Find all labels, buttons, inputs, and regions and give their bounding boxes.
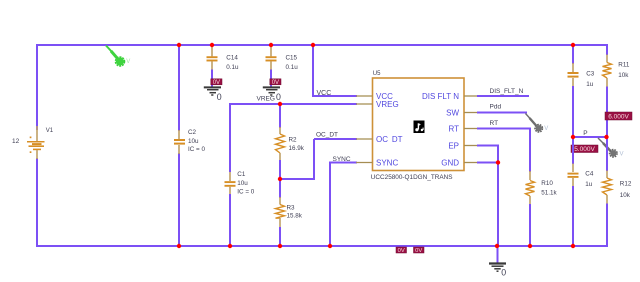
net label VREG bbox=[257, 96, 275, 103]
net label RT bbox=[490, 120, 499, 127]
svg-text:0V: 0V bbox=[272, 80, 279, 86]
ground (main, below bottom rail) bbox=[489, 246, 506, 278]
label UCC25800-Q1DGN_TRANS bbox=[371, 174, 453, 181]
net label P bbox=[583, 130, 587, 137]
voltage label 0V (bottom rail left) bbox=[396, 247, 407, 254]
voltage probe (Pdd) bbox=[526, 114, 549, 133]
pin stub OC DT bbox=[356, 138, 373, 140]
junction dot EP GND bbox=[496, 160, 500, 164]
svg-text:R11: R11 bbox=[618, 61, 630, 68]
svg-text:V1: V1 bbox=[46, 128, 54, 134]
junction dot bottom rail SYNC bbox=[328, 244, 332, 248]
svg-text:C14: C14 bbox=[226, 54, 238, 61]
svg-text:VREG: VREG bbox=[376, 100, 399, 109]
svg-text:C15: C15 bbox=[286, 54, 298, 61]
svg-text:P: P bbox=[583, 130, 587, 137]
wire R2 bottom bbox=[279, 160, 281, 180]
svg-text:0.1u: 0.1u bbox=[286, 64, 299, 71]
value label 10k bbox=[618, 72, 629, 79]
svg-text:10k: 10k bbox=[620, 192, 631, 199]
voltage label 0V (bottom rail right) bbox=[414, 247, 425, 254]
label C4 bbox=[585, 171, 594, 178]
svg-text:VREG: VREG bbox=[257, 96, 275, 103]
wire Pdd (SW) net bbox=[477, 112, 527, 114]
wire RT net bbox=[477, 129, 531, 173]
svg-text:0V: 0V bbox=[415, 248, 422, 254]
svg-text:51.1k: 51.1k bbox=[541, 189, 557, 196]
capacitor C1 bbox=[225, 172, 236, 246]
wire OC_DT net bbox=[279, 139, 357, 180]
op-amp U5 (IC UCC25800) body bbox=[373, 78, 465, 171]
net label Pdd bbox=[490, 104, 502, 111]
svg-text:RT: RT bbox=[448, 124, 459, 133]
label C1 bbox=[237, 171, 246, 178]
label C3 bbox=[586, 70, 595, 77]
label C15 bbox=[286, 54, 298, 61]
value label 12 bbox=[12, 138, 20, 145]
junction dot bottom rail GND bbox=[495, 244, 499, 248]
value label 0.1u bbox=[226, 64, 239, 71]
wire R11 branch bbox=[606, 44, 608, 55]
pin stub SYNC bbox=[356, 162, 373, 164]
wire GND net bbox=[477, 163, 498, 247]
current probe (green, top rail) bbox=[106, 46, 130, 67]
value label 1u bbox=[586, 81, 594, 88]
svg-text:0V: 0V bbox=[213, 80, 220, 86]
svg-text:OC DT: OC DT bbox=[376, 135, 403, 144]
svg-text:5.000V: 5.000V bbox=[574, 146, 595, 153]
value label 1u bbox=[585, 181, 593, 188]
junction dot bottom rail C4 bbox=[571, 244, 575, 248]
wire bottom rail bbox=[36, 245, 608, 247]
svg-text:1u: 1u bbox=[585, 181, 593, 188]
svg-text:DIS_FLT_N: DIS_FLT_N bbox=[490, 88, 524, 95]
wire node P bbox=[573, 136, 607, 138]
svg-text:16.9k: 16.9k bbox=[289, 145, 305, 152]
junction dot top rail C14 bbox=[210, 43, 214, 47]
junction dot bottom rail C1 bbox=[228, 244, 232, 248]
value label 0.1u bbox=[286, 64, 299, 71]
svg-text:IC = 0: IC = 0 bbox=[237, 188, 254, 195]
svg-text:DIS FLT N: DIS FLT N bbox=[422, 92, 459, 101]
junction dot top rail C3 bbox=[571, 43, 575, 47]
pin stub SW bbox=[464, 112, 478, 114]
pin stub VCC bbox=[356, 95, 373, 97]
svg-text:GND: GND bbox=[441, 158, 459, 167]
net label OC_DT bbox=[316, 132, 338, 139]
value label 10u bbox=[188, 138, 199, 145]
svg-text:12: 12 bbox=[12, 138, 20, 145]
svg-text:C2: C2 bbox=[188, 129, 197, 136]
voltage probe (node P) bbox=[598, 138, 624, 158]
svg-text:IC = 0: IC = 0 bbox=[188, 146, 205, 153]
label R11 bbox=[618, 61, 630, 68]
voltage label 5.000V bbox=[571, 145, 598, 153]
junction dot top rail C2 bbox=[177, 43, 181, 47]
value label IC = 0 bbox=[237, 188, 254, 195]
junction dot bottom rail R10 bbox=[528, 244, 532, 248]
label R2 bbox=[289, 137, 298, 144]
label R3 bbox=[287, 204, 296, 211]
resistor R11 bbox=[603, 55, 612, 139]
svg-text:SYNC: SYNC bbox=[333, 156, 351, 163]
svg-text:0.1u: 0.1u bbox=[226, 64, 239, 71]
svg-text:OC_DT: OC_DT bbox=[316, 132, 338, 139]
svg-text:15.8k: 15.8k bbox=[287, 213, 303, 220]
junction dot R2 R3 OC_DT bbox=[278, 177, 282, 181]
logo mark (black box with note) bbox=[414, 121, 425, 134]
label R10 bbox=[541, 180, 553, 187]
capacitor C15 bbox=[266, 46, 277, 87]
wire VCC branch bbox=[312, 45, 357, 96]
pin label RT bbox=[448, 124, 459, 133]
svg-text:6.000V: 6.000V bbox=[608, 113, 629, 120]
junction dot node P right bbox=[604, 135, 608, 139]
svg-text:C1: C1 bbox=[237, 171, 246, 178]
value label 51.1k bbox=[541, 189, 557, 196]
voltage label 6.000V bbox=[605, 112, 632, 120]
svg-text:UCC25800-Q1DGN_TRANS: UCC25800-Q1DGN_TRANS bbox=[371, 174, 453, 181]
wire left vertical (V1 branch) bbox=[36, 44, 38, 247]
capacitor C4 bbox=[568, 137, 579, 246]
label C14 bbox=[226, 54, 238, 61]
svg-text:C4: C4 bbox=[585, 171, 594, 178]
pin label DIS FLT N bbox=[422, 92, 459, 101]
pin label OC DT bbox=[376, 135, 403, 144]
voltage label 0V (C15 ground) bbox=[270, 79, 281, 86]
svg-text:0V: 0V bbox=[398, 248, 405, 254]
resistor R2 bbox=[276, 127, 285, 160]
voltage label 0V (C14 ground) bbox=[211, 79, 222, 86]
svg-text:10u: 10u bbox=[237, 180, 248, 187]
svg-text:R3: R3 bbox=[287, 204, 296, 211]
label C2 bbox=[188, 129, 197, 136]
wire EP net bbox=[477, 146, 499, 163]
capacitor C2 bbox=[174, 130, 185, 154]
capacitor C3 bbox=[568, 63, 579, 138]
svg-text:0: 0 bbox=[501, 268, 506, 278]
pin stub RT bbox=[464, 128, 478, 130]
svg-text:0: 0 bbox=[276, 92, 281, 102]
resistor R10 bbox=[526, 171, 535, 246]
svg-text:V: V bbox=[126, 59, 130, 65]
svg-text:0: 0 bbox=[217, 92, 222, 102]
value label 15.8k bbox=[287, 213, 303, 220]
wire top rail bbox=[36, 44, 608, 46]
svg-text:V: V bbox=[620, 152, 624, 158]
value label IC = 0 bbox=[188, 146, 205, 153]
resistor R12 bbox=[603, 137, 612, 247]
svg-text:V: V bbox=[544, 126, 548, 132]
pin label GND bbox=[441, 158, 459, 167]
value label 16.9k bbox=[289, 145, 305, 152]
wire C3 branch bbox=[572, 45, 574, 64]
pin stub EP bbox=[464, 145, 478, 147]
pin stub DIS FLT N bbox=[464, 95, 478, 97]
svg-text:EP: EP bbox=[448, 141, 459, 150]
svg-text:10u: 10u bbox=[188, 138, 199, 145]
junction dot bottom rail C2 bbox=[177, 244, 181, 248]
ground (C14) bbox=[204, 87, 222, 102]
pin stub GND bbox=[464, 162, 478, 164]
junction dot top rail C15 bbox=[269, 43, 273, 47]
svg-text:U5: U5 bbox=[373, 71, 381, 77]
svg-text:C3: C3 bbox=[586, 70, 595, 77]
wire DIS_FLT_N net bbox=[477, 95, 529, 97]
wire R2 top bbox=[279, 104, 281, 128]
svg-text:RT: RT bbox=[490, 120, 499, 127]
net label DIS_FLT_N bbox=[490, 88, 524, 95]
resistor R3 bbox=[276, 179, 285, 246]
junction dot top rail VCC bbox=[311, 43, 315, 47]
svg-text:R2: R2 bbox=[289, 137, 298, 144]
ground (C15) bbox=[263, 87, 281, 102]
battery V1 bbox=[27, 126, 45, 159]
value label 10k bbox=[620, 192, 631, 199]
junction dot node P left bbox=[571, 135, 575, 139]
svg-text:10k: 10k bbox=[618, 72, 629, 79]
label U5 bbox=[373, 71, 381, 77]
svg-text:R10: R10 bbox=[541, 180, 553, 187]
pin label VREG bbox=[376, 100, 399, 109]
label R12 bbox=[620, 180, 632, 187]
label V1 bbox=[46, 128, 54, 134]
svg-text:Pdd: Pdd bbox=[490, 104, 502, 111]
pin stub VREG bbox=[356, 103, 373, 105]
svg-text:SYNC: SYNC bbox=[376, 158, 398, 167]
svg-text:SW: SW bbox=[446, 108, 459, 117]
pin label EP bbox=[448, 141, 459, 150]
net label VCC bbox=[317, 90, 332, 97]
net label SYNC bbox=[333, 156, 351, 163]
pin label SYNC bbox=[376, 158, 398, 167]
pin label VCC bbox=[376, 92, 393, 101]
junction dot bottom rail R3 bbox=[278, 244, 282, 248]
wire C2 branch bbox=[178, 45, 180, 246]
svg-text:R12: R12 bbox=[620, 180, 632, 187]
value label 10u bbox=[237, 180, 248, 187]
junction dot VREG R2 bbox=[278, 102, 282, 106]
wire SYNC net bbox=[329, 162, 357, 247]
wire VREG net bbox=[229, 103, 357, 172]
pin label SW bbox=[446, 108, 459, 117]
svg-text:VCC: VCC bbox=[317, 90, 332, 97]
svg-text:1u: 1u bbox=[586, 81, 594, 88]
capacitor C14 bbox=[207, 46, 218, 87]
